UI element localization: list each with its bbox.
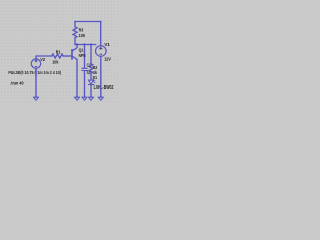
wire V2 bottom <box>35 68 37 97</box>
svg-text:LXHL-BW02: LXHL-BW02 <box>94 85 114 91</box>
resistor R3 <box>73 22 77 45</box>
wire V1 top drop <box>100 22 102 46</box>
ground (Q1 emitter) <box>75 97 80 100</box>
svg-text:NPN: NPN <box>79 53 86 58</box>
wire (V2 over text) <box>35 68 37 76</box>
emitter arrow <box>75 57 77 59</box>
svg-text:.tran 40: .tran 40 <box>10 81 24 86</box>
junction dots <box>76 43 92 45</box>
svg-text:V1: V1 <box>104 42 110 47</box>
svg-text:1µ: 1µ <box>87 69 91 74</box>
svg-text:12V: 12V <box>104 57 112 62</box>
node collector/C1 junction <box>76 43 78 45</box>
svg-text:PULSE(0 10.75 0 1m 1m 2 4 10): PULSE(0 10.75 0 1m 1m 2 4 10) <box>8 70 61 75</box>
wire V1 bottom <box>100 56 102 97</box>
svg-text:C1: C1 <box>87 63 92 68</box>
capacitor C1 <box>84 45 86 69</box>
wire top rail <box>75 21 101 23</box>
ground (V2) <box>34 97 39 100</box>
wire V2 top to R1 <box>36 56 52 59</box>
wire (V1 over text) <box>100 83 102 92</box>
wire R1 to base <box>63 55 71 57</box>
svg-text:D1: D1 <box>93 75 98 80</box>
wire collector rail <box>75 44 96 46</box>
ground (C1) <box>82 97 87 100</box>
svg-text:R3: R3 <box>79 28 84 33</box>
voltage source V1 <box>96 46 107 57</box>
svg-text:V2: V2 <box>40 57 45 62</box>
ground (V1) <box>98 97 103 100</box>
resistor R1 <box>52 54 64 58</box>
svg-text:Q1: Q1 <box>79 47 84 52</box>
svg-text:R1: R1 <box>56 49 61 54</box>
resistor R2 <box>89 45 93 81</box>
background <box>0 0 120 115</box>
transistor Q1 <box>71 50 73 59</box>
svg-text:100: 100 <box>79 33 86 38</box>
voltage source V2 pulse <box>31 59 40 68</box>
grid dots <box>0 0 120 105</box>
LED D1 <box>88 80 93 84</box>
ground (D1) <box>89 97 94 100</box>
svg-text:10k: 10k <box>52 59 59 64</box>
